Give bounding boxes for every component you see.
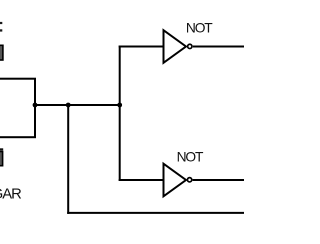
node: junction at main vertical (117, 103, 122, 108)
wire: main vertical bus (119, 46, 121, 182)
NOT gate U2 triangle (164, 30, 187, 63)
NOT gate U2 bubble (188, 44, 192, 48)
label fragment (cut-off text, top-left edge) (0, 22, 2, 32)
NOT gate U3 bubble (187, 178, 191, 182)
wire: bottom NOT gate input (119, 179, 164, 181)
svg-text:NOT: NOT (186, 21, 213, 36)
input switch (cut-off component, upper-left edge) (0, 45, 3, 60)
wire: top NOT output (193, 46, 244, 48)
svg-text:GAR: GAR (0, 187, 21, 203)
wire: box output to main vertical (35, 104, 120, 106)
wire: branch vertical down (67, 105, 69, 214)
wire: top NOT gate input (119, 46, 164, 48)
input box U1 (0, 79, 35, 138)
node: junction at branch (66, 103, 71, 108)
wire: bottom NOT output (193, 179, 244, 181)
node: junction at box output (33, 103, 38, 108)
wire: bottom horizontal to right edge (67, 212, 244, 214)
NOT gate U3 triangle (164, 164, 187, 197)
svg-text:NOT: NOT (177, 150, 204, 165)
input switch (cut-off component, lower-left edge) (0, 148, 3, 165)
